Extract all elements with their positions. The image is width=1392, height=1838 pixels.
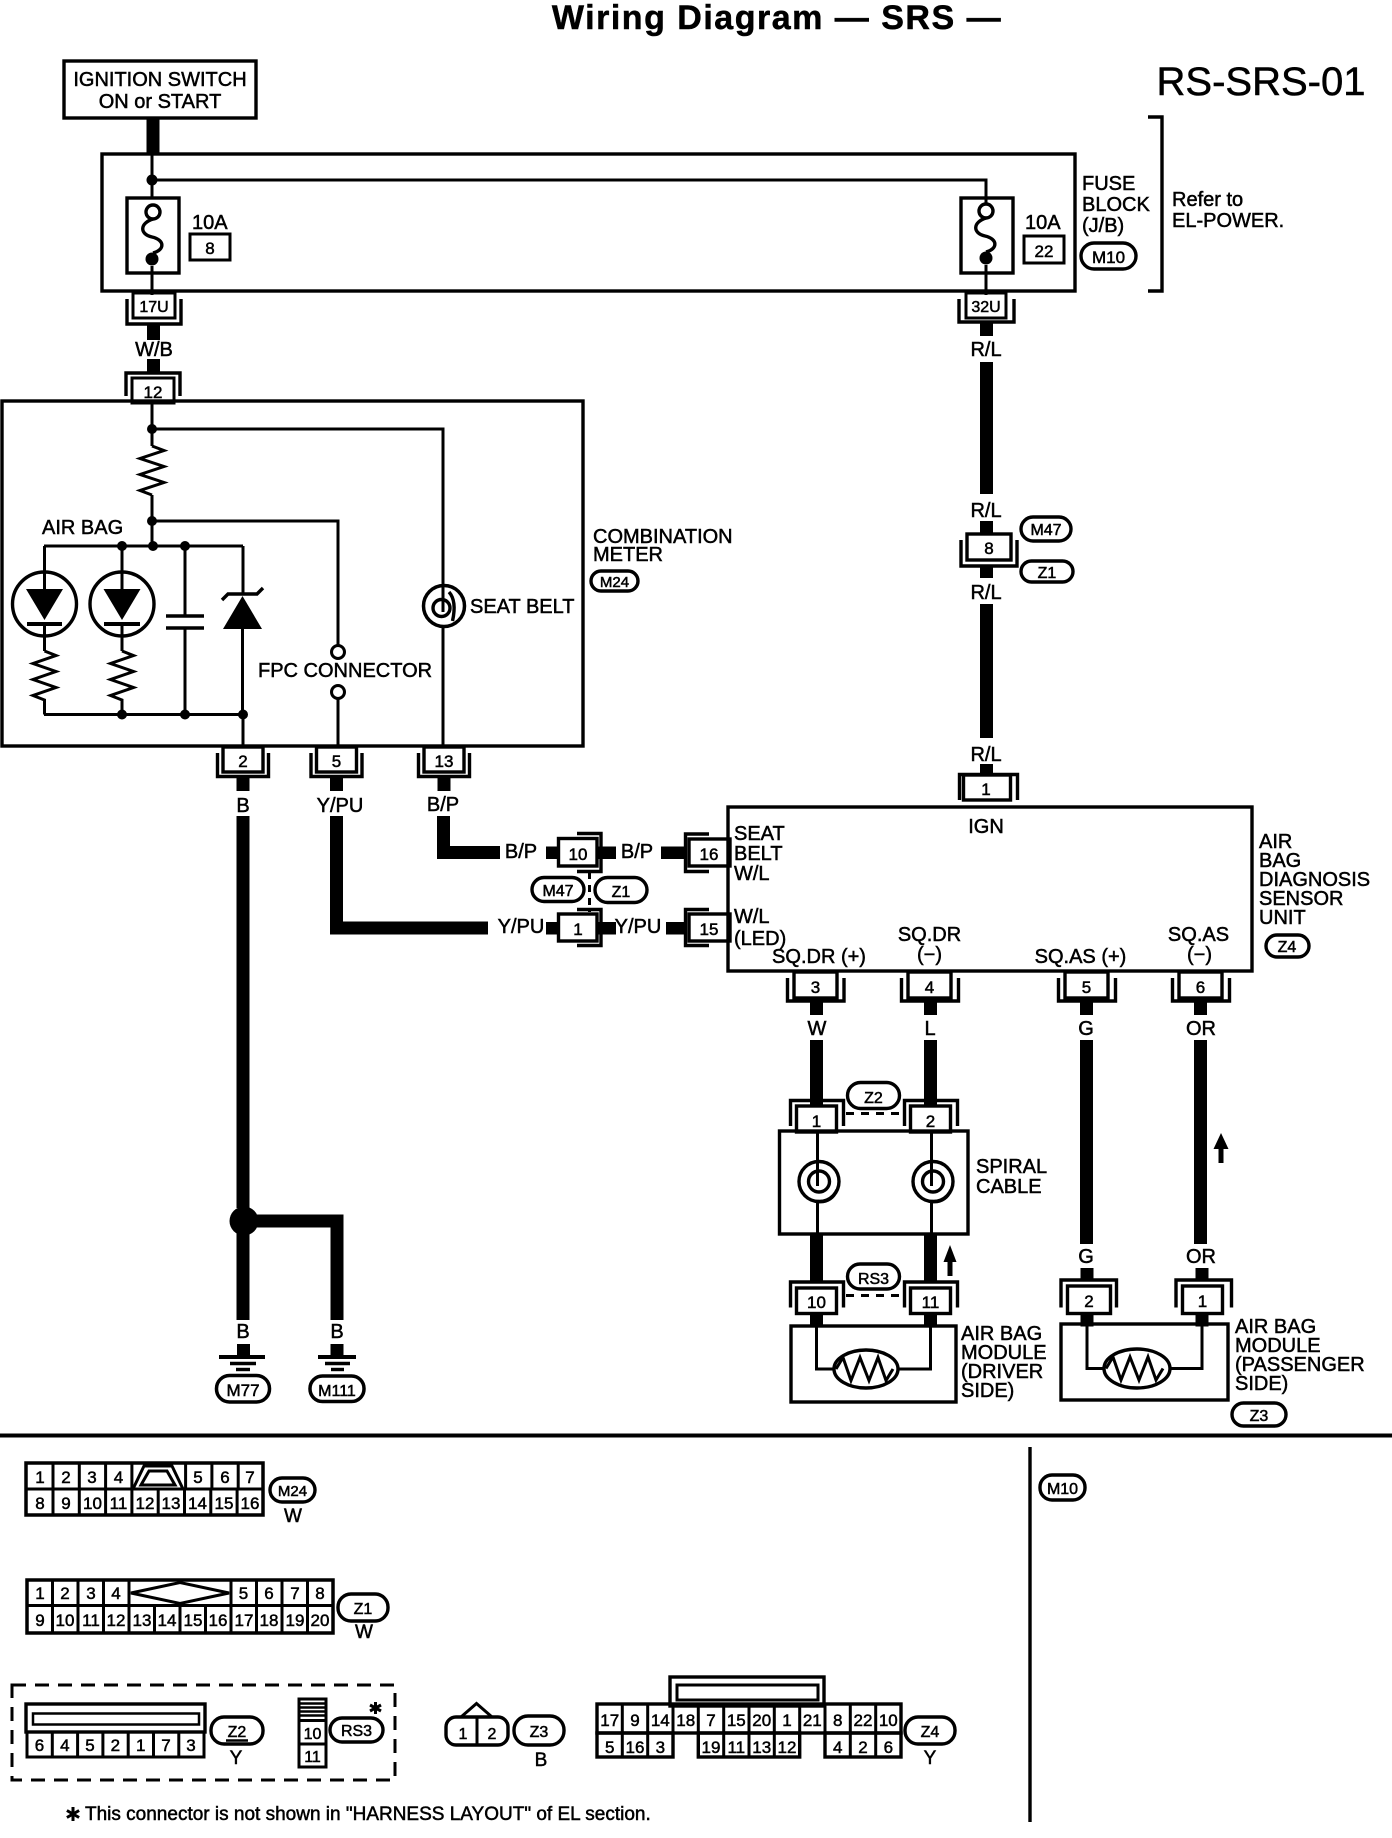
svg-text:5: 5 (1082, 978, 1091, 997)
connector Z1 oval mid (595, 878, 647, 903)
separator line (0, 1434, 1392, 1438)
wire label Y/PU (317, 795, 364, 817)
wire stub pin 6 (1194, 1002, 1207, 1015)
svg-text:This connector is not shown in: This connector is not shown in "HARNESS … (85, 1804, 651, 1825)
node junction dot B (230, 1207, 259, 1236)
wire B branch right vertical (331, 1215, 344, 1321)
footnote star (67, 1807, 79, 1821)
svg-text:1: 1 (573, 920, 582, 939)
svg-text:2: 2 (238, 752, 247, 771)
wire spiral to pin 10 (810, 1234, 823, 1282)
svg-text:Z1: Z1 (612, 884, 631, 901)
svg-text:W: W (284, 1506, 302, 1527)
wire B left below dot (237, 1230, 250, 1320)
svg-text:15: 15 (727, 1711, 746, 1730)
svg-text:19: 19 (286, 1611, 305, 1630)
svg-text:M111: M111 (318, 1383, 356, 1400)
svg-text:B: B (535, 1750, 548, 1771)
svg-text:IGN: IGN (968, 816, 1004, 838)
fuse F22 value 10A (1025, 212, 1061, 234)
svg-text:18: 18 (676, 1711, 695, 1730)
seat belt lamp (424, 586, 465, 748)
wire R/L vertical 2 (980, 604, 993, 738)
asterisk mark (370, 1702, 381, 1714)
svg-text:12: 12 (144, 383, 163, 402)
wire stub pin 5 (330, 777, 343, 791)
svg-text:6: 6 (1196, 978, 1205, 997)
wire stub above 12 (147, 359, 160, 373)
svg-text:17: 17 (600, 1711, 619, 1730)
svg-text:M77: M77 (226, 1381, 259, 1400)
svg-text:SQ.AS (+): SQ.AS (+) (1035, 946, 1127, 968)
air bag module passenger side box (1061, 1324, 1228, 1400)
pin 16 of sensor unit (686, 834, 731, 872)
wire stub pin 3 (810, 1002, 823, 1015)
svg-text:Z3: Z3 (1250, 1408, 1269, 1425)
connector Z2 oval (848, 1083, 900, 1109)
svg-text:2: 2 (1084, 1292, 1093, 1311)
node junction dot fuse feed (147, 175, 158, 186)
svg-text:9: 9 (61, 1494, 70, 1513)
wire from pin 12 (151, 403, 154, 446)
wire stub below passenger pin 2 (1081, 1314, 1094, 1327)
svg-text:Z3: Z3 (530, 1724, 549, 1741)
svg-text:8: 8 (315, 1584, 324, 1603)
ground M77 (219, 1344, 265, 1370)
svg-text:11: 11 (922, 1293, 940, 1312)
svg-text:4: 4 (111, 1584, 120, 1603)
svg-text:2: 2 (60, 1584, 69, 1603)
connector face Z4 key (670, 1677, 824, 1706)
svg-text:Y/PU: Y/PU (615, 916, 662, 938)
svg-text:10A: 10A (1025, 212, 1061, 234)
wire stub above connector 8 (980, 521, 993, 534)
connector RS3 oval label (330, 1718, 383, 1742)
wire label G (1078, 1018, 1094, 1040)
wire stub pin 10 (810, 1314, 823, 1327)
wire zener to pin 2 (242, 715, 245, 748)
svg-text:2: 2 (858, 1738, 867, 1757)
wire B/P horizontal (437, 846, 500, 859)
svg-text:13: 13 (435, 752, 454, 771)
svg-text:EL-POWER.: EL-POWER. (1172, 210, 1284, 232)
FPC connector circles (332, 646, 345, 748)
svg-text:W/L: W/L (734, 863, 770, 885)
svg-text:1: 1 (459, 1726, 468, 1743)
connector 12 (126, 373, 180, 403)
ground M111 (318, 1344, 356, 1370)
connector face Z4 row 2 (597, 1733, 901, 1757)
svg-text:4: 4 (114, 1468, 123, 1487)
svg-text:SEAT BELT: SEAT BELT (470, 596, 574, 618)
wire R/L vertical (980, 362, 993, 494)
svg-text:OR: OR (1186, 1246, 1216, 1268)
wire bottom bus (44, 713, 243, 716)
svg-text:R/L: R/L (970, 500, 1001, 522)
svg-text:G: G (1078, 1018, 1094, 1040)
wire stub right of connector 1 (598, 922, 616, 935)
svg-text:15: 15 (184, 1611, 203, 1630)
pin 3 of sensor unit (788, 972, 845, 1001)
connector face Z1 (27, 1580, 333, 1633)
pin 4 of sensor unit (902, 972, 959, 1001)
wire Y/PU vertical (330, 816, 343, 935)
svg-text:1: 1 (782, 1711, 791, 1730)
label SEAT BELT (470, 596, 574, 618)
svg-text:Z4: Z4 (1278, 939, 1297, 956)
wire B/P vertical (437, 816, 450, 859)
svg-text:Y/PU: Y/PU (317, 795, 364, 817)
svg-text:IGNITION SWITCH: IGNITION SWITCH (73, 69, 246, 91)
spiral coil left (799, 1131, 839, 1234)
svg-text:W: W (355, 1622, 373, 1643)
pin 5 of sensor unit (1059, 972, 1116, 1001)
svg-text:9: 9 (630, 1711, 639, 1730)
svg-text:1: 1 (35, 1584, 44, 1603)
LED D1 air bag warning (13, 546, 77, 651)
squib passenger (1104, 1349, 1170, 1388)
svg-text:16: 16 (241, 1494, 260, 1513)
connector Z1 oval label (338, 1594, 388, 1643)
svg-text:SIDE): SIDE) (961, 1380, 1014, 1402)
svg-text:G: G (1078, 1246, 1094, 1268)
wire label R/L (970, 582, 1001, 604)
resistor R-led2 (111, 651, 134, 715)
svg-text:11: 11 (304, 1749, 321, 1766)
wire feed inside fuse block (152, 154, 986, 205)
svg-text:Z1: Z1 (1038, 565, 1057, 582)
footnote text (85, 1804, 651, 1825)
wire stub below connector 8 (980, 566, 993, 578)
resistor R-meter (140, 446, 164, 495)
connector face Z4 row 1 (597, 1704, 901, 1733)
svg-text:8: 8 (984, 539, 993, 558)
svg-text:10: 10 (304, 1726, 322, 1743)
svg-text:FPC CONNECTOR: FPC CONNECTOR (258, 660, 432, 682)
label AIR BAG MODULE (DRIVER SIDE) (961, 1323, 1047, 1402)
svg-text:7: 7 (245, 1468, 254, 1487)
connector M24 oval (591, 571, 638, 591)
svg-text:10: 10 (56, 1611, 75, 1630)
wire stub below 32U (980, 322, 993, 336)
connector 32U (959, 293, 1014, 322)
connector 17U (127, 293, 181, 324)
svg-text:5: 5 (239, 1584, 248, 1603)
wires inside passenger module (1087, 1324, 1202, 1369)
svg-text:10: 10 (807, 1293, 826, 1312)
pin 15 of sensor unit (686, 910, 731, 946)
svg-text:22: 22 (854, 1711, 873, 1730)
label COMBINATION METER (593, 526, 733, 566)
label SQ.DR (+) (772, 946, 866, 968)
svg-text:8: 8 (833, 1711, 842, 1730)
label SQ.AS (-) (1168, 924, 1229, 966)
svg-text:B: B (330, 1321, 343, 1343)
svg-text:32U: 32U (971, 299, 1000, 316)
svg-text:6: 6 (884, 1738, 893, 1757)
svg-text:5: 5 (85, 1736, 94, 1755)
label W/L (LED) (734, 906, 786, 950)
wire stub below passenger pin 1 (1196, 1314, 1209, 1327)
resistor R-led1 (33, 651, 56, 715)
svg-text:10: 10 (569, 845, 588, 864)
svg-text:20: 20 (311, 1611, 330, 1630)
wire label B/P right (621, 841, 653, 863)
connector face M24 (26, 1463, 263, 1515)
wire label W (808, 1018, 827, 1040)
arrow near pin 11 (944, 1245, 957, 1276)
label AIR BAG MODULE (PASSENGER SIDE) (1235, 1316, 1365, 1395)
svg-text:19: 19 (702, 1738, 721, 1757)
svg-text:4: 4 (925, 978, 934, 997)
svg-text:9: 9 (35, 1611, 44, 1630)
title (552, 0, 1002, 37)
pin 6 of sensor unit (1173, 972, 1230, 1001)
connector 8 M47/Z1 (961, 534, 1017, 566)
capacitor C1 (166, 546, 204, 715)
svg-text:4: 4 (60, 1736, 69, 1755)
svg-text:Y: Y (924, 1748, 937, 1769)
svg-text:12: 12 (107, 1611, 126, 1630)
svg-text:8: 8 (35, 1494, 44, 1513)
svg-text:3: 3 (86, 1584, 95, 1603)
wire stub pin 2 (237, 777, 250, 791)
connector face Z3 (446, 1704, 508, 1746)
wire label B/P mid (505, 841, 537, 863)
svg-text:Refer to: Refer to (1172, 189, 1243, 211)
wire stub pin 11 (924, 1314, 937, 1327)
svg-text:22: 22 (1035, 242, 1054, 261)
svg-text:(−): (−) (1187, 944, 1212, 966)
svg-text:6: 6 (35, 1736, 44, 1755)
svg-text:CABLE: CABLE (976, 1176, 1042, 1198)
wire stub right of connector 10 (598, 847, 616, 860)
svg-text:W: W (808, 1018, 827, 1040)
svg-text:16: 16 (700, 845, 719, 864)
fuse F22 number 22 (1024, 236, 1064, 263)
pin 13 of meter (419, 747, 470, 777)
label SQ.DR (-) (898, 924, 961, 966)
connector M10 oval bottom (1040, 1475, 1085, 1500)
svg-text:R/L: R/L (970, 744, 1001, 766)
svg-text:B: B (236, 795, 249, 817)
connector Z4 oval label (905, 1717, 955, 1769)
zener diode D3 (222, 546, 263, 715)
svg-text:16: 16 (626, 1738, 645, 1757)
connector face RS3 (299, 1699, 326, 1767)
fuse F8 number 8 (190, 234, 230, 260)
wire label L (924, 1018, 935, 1040)
passenger module pin 1 (1176, 1280, 1232, 1314)
wire label B left (236, 1321, 249, 1343)
svg-text:FUSE: FUSE (1082, 173, 1135, 195)
svg-text:13: 13 (752, 1738, 771, 1757)
svg-text:B/P: B/P (621, 841, 653, 863)
svg-text:3: 3 (87, 1468, 96, 1487)
svg-text:3: 3 (811, 978, 820, 997)
svg-text:SQ.DR (+): SQ.DR (+) (772, 946, 866, 968)
svg-text:13: 13 (133, 1611, 152, 1630)
LED D2 air bag warning (90, 546, 154, 651)
svg-text:W/L: W/L (734, 906, 770, 928)
svg-text:M24: M24 (278, 1483, 307, 1500)
svg-text:6: 6 (220, 1468, 229, 1487)
connector face Z2 (26, 1704, 205, 1757)
connector M47 oval (1021, 517, 1071, 541)
svg-text:Wiring Diagram — SRS —: Wiring Diagram — SRS — (552, 0, 1002, 37)
wire label Y/PU mid (498, 916, 545, 938)
node dot FPC branch (147, 516, 157, 526)
svg-text:(J/B): (J/B) (1082, 215, 1124, 237)
svg-text:21: 21 (803, 1711, 822, 1730)
label FPC CONNECTOR (258, 660, 432, 682)
wire to FPC connector (152, 521, 338, 645)
squib driver (834, 1350, 898, 1388)
svg-text:10A: 10A (192, 212, 228, 234)
connector Z2 oval label (211, 1717, 263, 1769)
svg-text:7: 7 (706, 1711, 715, 1730)
svg-text:17: 17 (235, 1611, 254, 1630)
wire label OR (1186, 1018, 1216, 1040)
svg-text:Z4: Z4 (921, 1724, 940, 1741)
svg-text:W/B: W/B (135, 339, 173, 361)
svg-text:7: 7 (161, 1736, 170, 1755)
connector 10 M47/Z1 (559, 834, 602, 872)
svg-text:8: 8 (205, 239, 214, 258)
svg-text:12: 12 (778, 1738, 797, 1757)
wire stub above passenger pin 2 (1081, 1268, 1094, 1280)
svg-text:ON or START: ON or START (99, 91, 222, 113)
svg-text:RS3: RS3 (858, 1271, 889, 1288)
wire stub left of pin 15 (666, 922, 685, 935)
wire stub above IGN pin (980, 764, 993, 775)
label FUSE BLOCK (J/B) (1082, 173, 1150, 237)
svg-text:1: 1 (981, 780, 990, 799)
pin 2 of meter (218, 747, 269, 777)
svg-text:11: 11 (727, 1738, 745, 1757)
svg-text:5: 5 (193, 1468, 202, 1487)
wire label R/L (970, 744, 1001, 766)
ignition switch box (64, 61, 256, 118)
svg-text:L: L (924, 1018, 935, 1040)
svg-text:UNIT: UNIT (1259, 907, 1306, 929)
svg-text:2: 2 (488, 1726, 497, 1743)
wire stub above passenger pin 1 (1196, 1268, 1209, 1280)
wire ignition to fuse block (147, 118, 160, 155)
wire label OR lower (1186, 1246, 1216, 1268)
connector Z3 oval label (514, 1716, 564, 1771)
pin 5 of meter (311, 747, 362, 777)
spiral cable pin 1 (791, 1101, 844, 1133)
spiral cable pin 2 (905, 1101, 958, 1133)
svg-text:2: 2 (61, 1468, 70, 1487)
svg-text:B: B (236, 1321, 249, 1343)
svg-text:RS-SRS-01: RS-SRS-01 (1157, 60, 1366, 104)
wire stub pin 5 (1080, 1002, 1093, 1015)
svg-text:1: 1 (136, 1736, 145, 1755)
label SEAT BELT W/L (734, 823, 785, 885)
wire L vertical (924, 1040, 937, 1106)
svg-text:20: 20 (752, 1711, 771, 1730)
svg-text:B/P: B/P (427, 794, 459, 816)
svg-text:M24: M24 (600, 574, 629, 591)
wire OR vertical (1194, 1040, 1207, 1244)
wire label R/L (970, 339, 1001, 361)
svg-text:1: 1 (35, 1468, 44, 1487)
fuse F8 10A (127, 198, 179, 295)
svg-text:14: 14 (188, 1494, 207, 1513)
fuse F22 10A (961, 198, 1013, 295)
svg-text:13: 13 (162, 1494, 181, 1513)
svg-text:Z2: Z2 (864, 1090, 883, 1107)
label IGN (968, 816, 1004, 838)
wire B vertical long (237, 816, 250, 1208)
svg-text:R/L: R/L (970, 582, 1001, 604)
svg-text:SPIRAL: SPIRAL (976, 1156, 1047, 1178)
svg-text:Z1: Z1 (354, 1601, 373, 1618)
dashed link RS3 (846, 1294, 903, 1297)
wires inside driver module (817, 1326, 931, 1369)
svg-text:2: 2 (926, 1112, 935, 1131)
node dots on top bus (117, 541, 190, 551)
wire label B/P (427, 794, 459, 816)
connector Z3 oval (1232, 1403, 1286, 1426)
svg-text:3: 3 (186, 1736, 195, 1755)
wire B branch horizontal (244, 1215, 344, 1228)
svg-text:15: 15 (700, 920, 719, 939)
wire stub left of connector 1 (546, 922, 557, 935)
svg-text:5: 5 (332, 752, 341, 771)
svg-text:Z2: Z2 (228, 1724, 247, 1741)
wire stub left of connector 10 (546, 847, 557, 860)
node dots on bottom bus (117, 710, 248, 720)
connector RS3 oval (848, 1264, 900, 1289)
connector Z1 oval (1021, 561, 1073, 582)
svg-text:4: 4 (833, 1738, 842, 1757)
svg-text:Y/PU: Y/PU (498, 916, 545, 938)
wire top bus (44, 545, 243, 548)
wire stub pin 13 (438, 777, 451, 791)
node dot seat belt branch (147, 424, 157, 434)
svg-text:R/L: R/L (970, 339, 1001, 361)
svg-text:2: 2 (111, 1736, 120, 1755)
arrow on OR run (1214, 1133, 1229, 1163)
wire label W/B (135, 339, 173, 361)
wire label B (236, 795, 249, 817)
vertical divider (1028, 1447, 1031, 1822)
svg-text:SIDE): SIDE) (1235, 1373, 1288, 1395)
svg-text:11: 11 (82, 1611, 100, 1630)
pin 1 IGN (960, 775, 1018, 801)
label SPIRAL CABLE (976, 1156, 1047, 1198)
svg-text:5: 5 (605, 1738, 614, 1757)
svg-text:M47: M47 (542, 883, 573, 900)
label SQ.AS (+) (1035, 946, 1127, 968)
svg-text:1: 1 (1198, 1292, 1207, 1311)
wire G vertical (1080, 1040, 1093, 1244)
spiral cable box (780, 1131, 969, 1234)
wire label Y/PU right (615, 916, 662, 938)
connector M47 oval mid (532, 878, 584, 902)
svg-text:17U: 17U (139, 299, 168, 316)
svg-text:18: 18 (260, 1611, 279, 1630)
connector M111 oval (310, 1376, 364, 1402)
spiral coil right (913, 1131, 953, 1234)
fuse F8 value 10A (192, 212, 228, 234)
svg-text:AIR BAG: AIR BAG (42, 517, 123, 539)
svg-text:14: 14 (158, 1611, 177, 1630)
svg-text:SQ.AS: SQ.AS (1168, 924, 1229, 946)
